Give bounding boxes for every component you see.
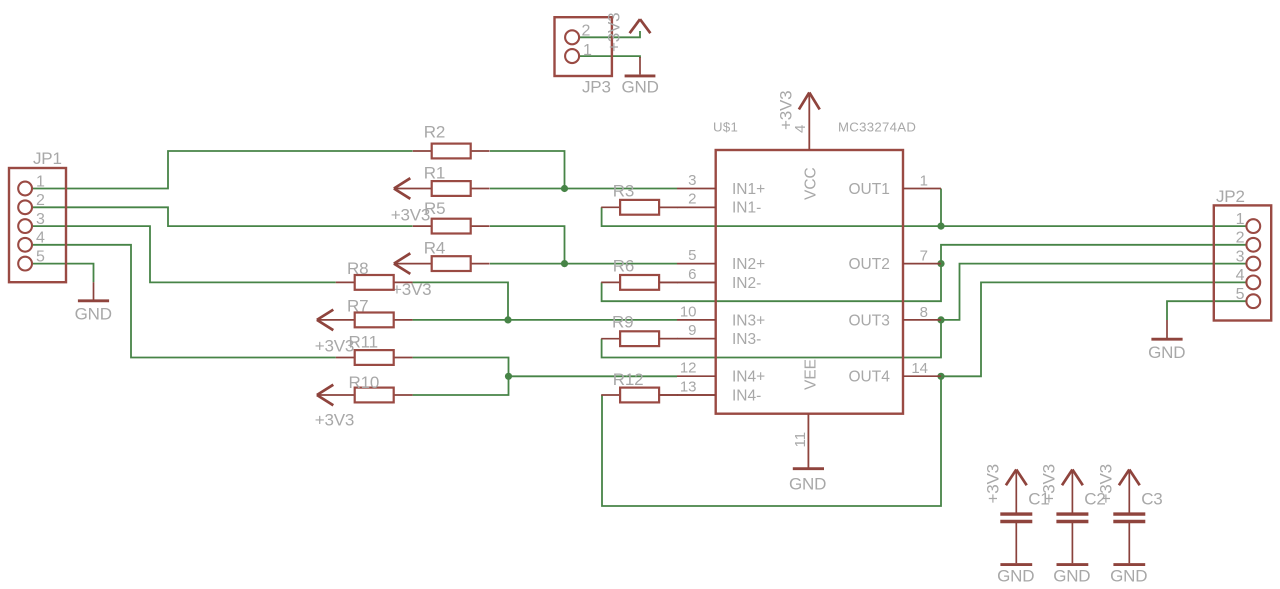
junction node OUT3 <box>937 316 944 323</box>
pin 1 OUT1 <box>903 188 941 190</box>
wire OUT2 to JP2 pin2 <box>941 245 1246 264</box>
supply +3V3 arrow (C2) <box>1062 470 1083 486</box>
op-amp U1 (MC33274AD) <box>716 150 903 414</box>
svg-text:1: 1 <box>36 173 45 190</box>
junction node IN4+ <box>505 373 512 380</box>
pin 11 VEE ground <box>807 414 809 468</box>
svg-text:GND: GND <box>1053 566 1090 585</box>
svg-text:R10: R10 <box>349 373 380 392</box>
wire R2 to node IN1+ <box>490 151 565 189</box>
resistor R9 <box>601 338 620 340</box>
svg-text:MC33274AD: MC33274AD <box>838 119 916 134</box>
junction node OUT1 <box>937 223 944 230</box>
supply +3V3 arrow (R1) <box>394 178 410 199</box>
pin 12 IN4+ <box>677 375 716 377</box>
wire JP1 pin4 to R11 <box>32 245 336 358</box>
junction node IN3+ <box>504 316 511 323</box>
capacitor C2 <box>1071 471 1073 513</box>
capacitor C3 <box>1128 471 1130 513</box>
svg-text:4: 4 <box>36 230 45 247</box>
resistor R1 <box>394 188 432 190</box>
wire R7 to pin IN3+ <box>413 319 677 321</box>
connector JP2 <box>1214 205 1271 320</box>
svg-text:IN2-: IN2- <box>732 275 761 292</box>
svg-text:IN3-: IN3- <box>732 331 761 348</box>
svg-text:U$1: U$1 <box>713 119 738 134</box>
svg-text:VCC: VCC <box>803 167 820 200</box>
svg-text:1: 1 <box>583 42 592 59</box>
svg-text:5: 5 <box>1236 286 1245 303</box>
svg-text:R4: R4 <box>424 239 445 258</box>
wire OUT1 node to JP2 pin1 <box>941 225 1246 227</box>
svg-text:1: 1 <box>1236 211 1245 228</box>
wire OUT4 to JP2 pin4 <box>941 282 1246 376</box>
ground (JP3) <box>639 57 641 74</box>
pin 8 OUT3 <box>903 319 941 321</box>
svg-text:13: 13 <box>680 378 697 395</box>
wire JP1 pin1 to R2 <box>32 151 413 189</box>
wire JP3 pin1 to ground <box>579 56 640 58</box>
svg-text:OUT3: OUT3 <box>849 312 890 329</box>
svg-text:+3V3: +3V3 <box>777 91 796 130</box>
resistor R12 <box>601 394 620 396</box>
wire R4 to pin IN2+ <box>490 263 677 265</box>
svg-text:JP1: JP1 <box>33 149 62 168</box>
pin 4 VCC supply +3V3 <box>808 93 810 150</box>
capacitor C1 <box>1015 471 1017 513</box>
svg-text:IN1+: IN1+ <box>732 181 765 198</box>
svg-text:R3: R3 <box>613 181 634 200</box>
wire R3 to OUT1 node <box>602 207 941 226</box>
svg-text:JP2: JP2 <box>1216 187 1245 206</box>
svg-text:R7: R7 <box>347 296 368 315</box>
resistor R7 <box>317 319 355 321</box>
wire OUT1 pin to node <box>940 189 942 227</box>
svg-text:R6: R6 <box>613 256 634 275</box>
svg-text:OUT4: OUT4 <box>849 369 891 386</box>
resistor R10 <box>317 394 355 396</box>
wire JP1 pin3 to R8 <box>32 226 336 282</box>
svg-text:12: 12 <box>680 360 697 377</box>
resistor R5 <box>413 225 432 227</box>
wire R8 to node IN3+ <box>413 282 508 320</box>
svg-text:2: 2 <box>688 191 696 208</box>
resistor R4 <box>394 263 432 265</box>
svg-text:6: 6 <box>688 266 696 283</box>
svg-text:VEE: VEE <box>803 359 820 390</box>
wire R11 to node IN4+ <box>413 358 509 377</box>
svg-text:1: 1 <box>920 173 928 190</box>
connector JP1 <box>9 168 66 282</box>
svg-text:+3V3: +3V3 <box>1040 464 1059 503</box>
pin 7 OUT2 <box>903 263 941 265</box>
junction node OUT4 <box>937 373 944 380</box>
junction node OUT2 <box>937 260 944 267</box>
wire JP3 pin2 to +3V3 <box>579 31 640 37</box>
svg-text:GND: GND <box>1148 343 1185 362</box>
wire OUT4 feedback to R12 <box>602 376 941 506</box>
pin 3 IN1+ <box>677 188 716 190</box>
wire OUT3 to JP2 pin3 <box>941 264 1246 320</box>
svg-text:IN4-: IN4- <box>732 387 761 404</box>
supply +3V3 (JP3) <box>630 19 651 33</box>
supply +3V3 arrow (R10) <box>317 385 333 406</box>
svg-text:GND: GND <box>75 304 112 323</box>
pin 9 IN3- <box>677 338 716 340</box>
svg-text:9: 9 <box>688 322 696 339</box>
wire R6 to pin IN2- <box>659 281 716 283</box>
svg-text:IN2+: IN2+ <box>732 256 765 273</box>
pin 6 IN2- <box>677 281 716 283</box>
svg-text:2: 2 <box>582 22 591 39</box>
svg-text:GND: GND <box>789 475 826 494</box>
resistor R3 <box>601 206 620 208</box>
pin 14 OUT4 <box>903 375 941 377</box>
svg-text:10: 10 <box>680 303 697 320</box>
svg-text:R2: R2 <box>424 122 445 141</box>
ground (JP2) <box>1166 320 1168 339</box>
svg-text:4: 4 <box>1236 267 1245 284</box>
resistor R2 <box>413 150 432 152</box>
svg-text:GND: GND <box>622 78 659 97</box>
svg-text:R11: R11 <box>349 333 378 352</box>
svg-text:+3V3: +3V3 <box>1097 464 1116 503</box>
svg-text:JP3: JP3 <box>582 78 611 97</box>
supply +3V3 arrow (C1) <box>1006 470 1027 486</box>
svg-text:5: 5 <box>688 247 696 264</box>
svg-text:OUT1: OUT1 <box>849 181 890 198</box>
pin 5 IN2+ <box>677 263 716 265</box>
resistor R11 <box>336 357 355 359</box>
svg-text:OUT2: OUT2 <box>849 256 890 273</box>
wire OUT2 feedback to R6 <box>602 264 941 302</box>
wire R3 to pin IN1- <box>659 206 716 208</box>
wire R12 to pin IN4- <box>659 394 716 396</box>
resistor R6 <box>601 281 620 283</box>
svg-text:GND: GND <box>1110 566 1147 585</box>
svg-text:GND: GND <box>997 566 1034 585</box>
svg-text:2: 2 <box>1236 230 1245 247</box>
svg-text:IN1-: IN1- <box>732 200 761 217</box>
svg-text:8: 8 <box>920 304 928 321</box>
svg-text:2: 2 <box>36 192 45 209</box>
connector JP3 <box>555 17 612 76</box>
wire JP1 pin5 to ground <box>32 264 94 283</box>
wire R9 to pin IN3- <box>659 338 716 340</box>
junction node IN1+ <box>561 185 568 192</box>
svg-text:+3V3: +3V3 <box>605 13 624 52</box>
svg-text:R8: R8 <box>347 259 368 278</box>
wire node IN4+ to pin IN4+ <box>509 375 678 377</box>
svg-text:IN3+: IN3+ <box>732 312 765 329</box>
svg-text:5: 5 <box>36 248 45 265</box>
svg-text:+3V3: +3V3 <box>315 411 354 430</box>
pin 10 IN3+ <box>677 319 716 321</box>
wire OUT3 feedback to R9 <box>602 320 941 358</box>
pin 2 IN1- <box>677 206 716 208</box>
supply +3V3 arrow (R7) <box>317 310 333 331</box>
svg-text:+3V3: +3V3 <box>984 464 1003 503</box>
svg-text:R12: R12 <box>613 370 644 389</box>
wire R1 to pin IN1+ <box>490 188 677 190</box>
svg-text:C3: C3 <box>1141 490 1162 509</box>
supply +3V3 arrow (R4) <box>394 253 410 274</box>
svg-text:3: 3 <box>688 172 696 189</box>
svg-text:11: 11 <box>792 432 809 448</box>
wire R5 to node IN2+ <box>490 226 565 264</box>
svg-text:14: 14 <box>911 360 928 377</box>
svg-text:3: 3 <box>1236 248 1245 265</box>
junction node IN2+ <box>561 260 568 267</box>
svg-text:7: 7 <box>920 248 928 265</box>
svg-text:R1: R1 <box>424 164 445 183</box>
svg-text:3: 3 <box>36 211 45 228</box>
supply +3V3 arrow (C3) <box>1119 470 1140 486</box>
svg-text:R5: R5 <box>424 199 445 218</box>
wire R10 to node IN4+ <box>413 376 509 395</box>
resistor R8 <box>336 281 355 283</box>
pin 13 IN4- <box>677 394 716 396</box>
svg-text:IN4+: IN4+ <box>732 369 765 386</box>
svg-text:R9: R9 <box>612 312 633 331</box>
ground (JP1) <box>93 282 95 301</box>
wire JP2 pin5 to ground <box>1167 301 1246 320</box>
wire JP1 pin2 to R5 <box>32 207 413 226</box>
